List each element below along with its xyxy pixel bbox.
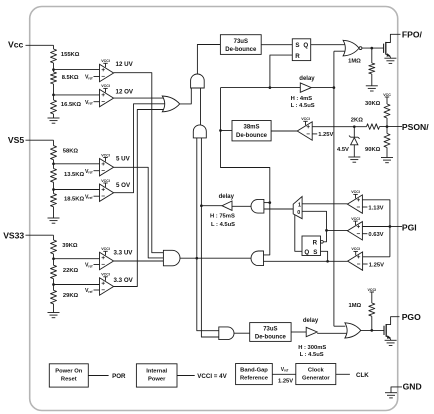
svg-text:Power On: Power On bbox=[55, 368, 83, 374]
svg-text:VCCI: VCCI bbox=[351, 217, 360, 221]
svg-text:73uS: 73uS bbox=[263, 326, 277, 332]
wire 5UV output riser to AND bbox=[114, 167, 164, 258]
resistor 18.5K bbox=[51, 194, 57, 207]
wire dome B input2 riser bbox=[200, 138, 202, 206]
reference 1.25V PSON bbox=[312, 133, 317, 135]
svg-text:VCC: VCC bbox=[383, 93, 391, 97]
svg-text:R: R bbox=[313, 240, 318, 247]
svg-text:VS5: VS5 bbox=[8, 135, 24, 145]
svg-text:39KΩ: 39KΩ bbox=[62, 243, 78, 249]
resistor 1M FPO bbox=[371, 48, 373, 63]
wire VCCI = 4V bbox=[177, 375, 195, 377]
svg-text:22KΩ: 22KΩ bbox=[63, 268, 79, 274]
wire tap 3.3UV bbox=[53, 254, 55, 265]
wire PSON comparator output to 38mS bbox=[271, 130, 297, 132]
and-gate vertical B bbox=[193, 125, 206, 138]
svg-text:S: S bbox=[295, 42, 299, 49]
latch RS PGI bbox=[302, 236, 321, 256]
svg-text:Vref: Vref bbox=[85, 169, 93, 175]
wire AND-left lower output bbox=[197, 257, 251, 259]
reference 1.25V PGI bbox=[363, 263, 368, 265]
svg-text:VCCI: VCCI bbox=[351, 247, 360, 251]
comparator 3.3OV bbox=[100, 278, 114, 295]
svg-text:VCCI: VCCI bbox=[101, 179, 110, 183]
wire mux input 0 riser to R bbox=[302, 211, 326, 242]
transistor PGO bbox=[383, 326, 385, 335]
svg-text:VCCI: VCCI bbox=[101, 247, 110, 251]
comparator 1.25V PGI bbox=[348, 252, 363, 270]
wire POR bbox=[88, 375, 108, 377]
svg-text:38mS: 38mS bbox=[243, 125, 259, 131]
svg-text:1.13V: 1.13V bbox=[368, 205, 383, 211]
wire riser to bottom AND input1 bbox=[197, 258, 219, 331]
wire VS33 to divider bbox=[53, 235, 55, 240]
wire NOR input2 riser / PGO OR riser bbox=[334, 50, 345, 52]
svg-text:VCCI: VCCI bbox=[368, 288, 377, 292]
svg-text:0: 0 bbox=[297, 210, 300, 216]
svg-text:4.5V: 4.5V bbox=[337, 147, 349, 153]
svg-text:0.63V: 0.63V bbox=[368, 232, 383, 238]
comparator 12UV bbox=[100, 64, 114, 81]
resistor 30K pullup bbox=[386, 97, 388, 101]
svg-text:VCCI = 4V: VCCI = 4V bbox=[197, 373, 227, 380]
svg-text:Vref: Vref bbox=[85, 263, 93, 269]
resistor 22K bbox=[51, 265, 57, 279]
comparator PSON 1.25V bbox=[297, 122, 312, 140]
and-gate vertical A bbox=[191, 74, 205, 88]
svg-text:De-bounce: De-bounce bbox=[236, 133, 268, 139]
svg-text:L : 4.5uS: L : 4.5uS bbox=[300, 352, 324, 358]
wire riser to bottom AND input2 bbox=[201, 206, 218, 337]
wire PGI to plus input 0.63V bbox=[362, 226, 390, 228]
svg-text:Vref: Vref bbox=[281, 367, 289, 373]
svg-text:Reset: Reset bbox=[61, 377, 77, 383]
nor-gate FPO bbox=[343, 40, 359, 56]
svg-text:Power: Power bbox=[148, 377, 166, 383]
ground divider 12V bbox=[53, 114, 55, 118]
svg-text:Band-Gap: Band-Gap bbox=[240, 368, 268, 374]
svg-text:3.3 OV: 3.3 OV bbox=[114, 277, 134, 284]
wire S input riser bbox=[321, 251, 328, 261]
svg-text:H : 4mS: H : 4mS bbox=[291, 96, 313, 102]
wire tap 5OV bbox=[53, 182, 55, 193]
svg-text:8.5KΩ: 8.5KΩ bbox=[62, 75, 79, 81]
svg-text:90KΩ: 90KΩ bbox=[365, 147, 381, 153]
resistor 90K pulldown bbox=[386, 127, 388, 134]
wire 12OV output to OR bbox=[114, 97, 165, 99]
ground GND pin bbox=[385, 392, 397, 394]
wire mux output to AND-left upper bbox=[264, 208, 293, 210]
svg-text:CLK: CLK bbox=[356, 372, 369, 379]
wire tap 12UV bbox=[53, 63, 55, 72]
svg-text:5 OV: 5 OV bbox=[116, 182, 131, 189]
svg-text:PGI: PGI bbox=[402, 222, 417, 232]
resistor 1M PGO bbox=[371, 292, 373, 296]
svg-text:Vref: Vref bbox=[85, 100, 93, 106]
wire 12UV output riser to AND bbox=[114, 73, 164, 253]
and-gate left upper bbox=[251, 199, 264, 213]
svg-text:16.5KΩ: 16.5KΩ bbox=[61, 102, 81, 108]
wire NOR output to FPO transistor bbox=[362, 47, 384, 49]
ground 90K bbox=[381, 157, 393, 159]
resistor 16.5K bbox=[51, 100, 57, 114]
de-bounce 73uS bottom box bbox=[250, 323, 291, 342]
svg-text:Vcc: Vcc bbox=[8, 40, 24, 50]
resistor 155K bbox=[51, 49, 57, 63]
wire VS5 to divider bbox=[53, 140, 55, 145]
resistor 58K bbox=[51, 146, 57, 160]
wire 5OV output riser to OR bbox=[114, 104, 165, 193]
svg-text:Vref: Vref bbox=[85, 194, 93, 200]
svg-text:GND: GND bbox=[403, 381, 422, 391]
svg-text:VCCI: VCCI bbox=[351, 190, 360, 194]
resistor 13.5K bbox=[51, 169, 57, 183]
svg-text:Clock: Clock bbox=[308, 368, 325, 374]
wire AND B output to AND A bbox=[200, 88, 202, 125]
wire comparator 1.13V plus input bbox=[362, 200, 390, 227]
svg-text:73uS: 73uS bbox=[234, 39, 248, 45]
svg-text:Q: Q bbox=[303, 42, 308, 49]
svg-text:3.3 UV: 3.3 UV bbox=[114, 250, 134, 257]
svg-text:12 UV: 12 UV bbox=[116, 61, 134, 68]
block Power On Reset bbox=[49, 364, 88, 387]
resistor 29K bbox=[51, 290, 57, 304]
svg-text:Internal: Internal bbox=[146, 368, 167, 374]
and-gate left lower bbox=[251, 251, 264, 266]
comparator 12OV bbox=[100, 89, 114, 106]
wire OR output riser to vertical AND A bbox=[180, 88, 191, 104]
svg-text:FPO/: FPO/ bbox=[402, 30, 423, 40]
reference 0.63V bbox=[362, 233, 367, 235]
wire 75mS delay output to risers bbox=[201, 205, 222, 207]
wire bottom AND to 73uS de-bounce bbox=[234, 332, 250, 334]
svg-text:Generator: Generator bbox=[302, 376, 330, 382]
svg-text:VCCI: VCCI bbox=[101, 273, 110, 277]
svg-text:13.5KΩ: 13.5KΩ bbox=[64, 172, 84, 178]
ground 1M FPO bbox=[371, 74, 373, 86]
wire comparator 0.63V output bbox=[327, 229, 348, 231]
wire 73uS to S input bbox=[261, 44, 292, 46]
svg-text:delay: delay bbox=[303, 318, 319, 324]
svg-text:VS33: VS33 bbox=[3, 231, 24, 241]
svg-text:1MΩ: 1MΩ bbox=[349, 303, 362, 309]
wire delay output to NOR input riser bbox=[311, 87, 334, 89]
or-gate PGO bbox=[345, 323, 361, 338]
ground divider 5V bbox=[53, 207, 55, 218]
resistor 2K series bbox=[367, 124, 380, 130]
wire mux input 1 from comparator 1.13V bbox=[302, 203, 347, 205]
and-gate bottom PGO bbox=[219, 327, 234, 340]
svg-text:Vref: Vref bbox=[85, 75, 93, 81]
wire AND A output to 73uS de-bounce bbox=[197, 45, 220, 75]
or-gate OV fault bbox=[162, 96, 179, 112]
block Band-Gap Reference bbox=[236, 364, 273, 385]
wire Q output to NOR bbox=[311, 44, 345, 46]
svg-text:18.5KΩ: 18.5KΩ bbox=[64, 196, 84, 202]
svg-text:R: R bbox=[295, 53, 300, 60]
wire branch to AND-left upper bbox=[264, 202, 270, 204]
svg-text:30KΩ: 30KΩ bbox=[365, 101, 381, 107]
wire Q to mux select bbox=[295, 215, 302, 252]
svg-text:H : 75mS: H : 75mS bbox=[210, 214, 235, 220]
wire 3.3OV output riser to OR bbox=[114, 110, 165, 287]
wire R input from PSON debounce bbox=[270, 55, 292, 88]
wire PSON node to comparator bbox=[312, 126, 366, 128]
wire tap 5UV bbox=[53, 160, 55, 169]
wire tap 3.3OV bbox=[53, 279, 55, 291]
pin PGI bbox=[389, 225, 392, 228]
resistor 39K bbox=[51, 240, 57, 254]
svg-text:58KΩ: 58KΩ bbox=[63, 148, 79, 154]
svg-text:1MΩ: 1MΩ bbox=[348, 58, 361, 64]
svg-text:1.25V: 1.25V bbox=[369, 263, 384, 269]
latch SR top bbox=[292, 39, 310, 61]
svg-text:VCCI: VCCI bbox=[101, 59, 110, 63]
ground zener bbox=[348, 156, 360, 158]
svg-text:155KΩ: 155KΩ bbox=[61, 52, 80, 58]
svg-text:H : 300mS: H : 300mS bbox=[298, 345, 326, 351]
ground divider 3.3V bbox=[53, 304, 55, 313]
svg-text:5 UV: 5 UV bbox=[116, 156, 131, 163]
wire AND-left upper output to 75mS delay bbox=[232, 205, 251, 207]
svg-text:Vref: Vref bbox=[85, 288, 93, 294]
comparator 3.3UV bbox=[100, 252, 114, 269]
transistor FPO bbox=[383, 44, 385, 53]
svg-text:VCCI: VCCI bbox=[101, 153, 110, 157]
de-bounce 73uS top box bbox=[220, 35, 261, 55]
mux 2to1 bbox=[293, 197, 302, 219]
svg-text:delay: delay bbox=[219, 194, 235, 200]
svg-text:1.25V: 1.25V bbox=[278, 379, 293, 385]
svg-text:Reference: Reference bbox=[240, 376, 269, 382]
wire OR output to PGO transistor bbox=[360, 329, 384, 331]
svg-text:POR: POR bbox=[112, 373, 126, 380]
wire 38mS output snake bbox=[221, 130, 233, 132]
comparator 1.13V bbox=[347, 195, 362, 213]
svg-text:delay: delay bbox=[299, 76, 315, 82]
wire U-AND output junction bbox=[195, 257, 198, 260]
wire delay 300mS to OR bbox=[317, 332, 346, 334]
svg-text:1.25V: 1.25V bbox=[318, 132, 333, 138]
wire comparator 1.25V plus input bbox=[363, 256, 390, 258]
de-bounce 38mS box bbox=[232, 121, 271, 141]
svg-text:S: S bbox=[313, 249, 317, 256]
svg-text:L : 4.5uS: L : 4.5uS bbox=[211, 222, 235, 228]
reference 1.13V bbox=[362, 206, 367, 208]
svg-text:PGO: PGO bbox=[402, 312, 421, 322]
comparator 0.63V bbox=[347, 222, 362, 240]
ground FPO source bbox=[384, 57, 396, 59]
svg-text:1: 1 bbox=[298, 202, 301, 208]
wire 38mS output down branch bbox=[221, 131, 270, 255]
wire dome B input1 riser bbox=[196, 138, 198, 258]
comparator 5OV bbox=[100, 184, 114, 201]
svg-text:De-bounce: De-bounce bbox=[255, 335, 287, 341]
resistor 8.5K bbox=[51, 72, 57, 84]
zener diode 4.5V bbox=[353, 127, 355, 138]
svg-text:De-bounce: De-bounce bbox=[225, 47, 257, 53]
comparator 5UV bbox=[100, 159, 114, 176]
svg-text:12 OV: 12 OV bbox=[116, 88, 134, 95]
and-gate UV good U-AND bbox=[163, 250, 180, 265]
wire FPO riser to PGO OR bbox=[334, 325, 346, 327]
block Internal Power bbox=[136, 364, 177, 387]
svg-text:VCCI: VCCI bbox=[101, 84, 110, 88]
svg-text:L : 4.5uS: L : 4.5uS bbox=[291, 103, 315, 109]
ground PGO source bbox=[385, 339, 397, 341]
svg-text:2KΩ: 2KΩ bbox=[351, 117, 363, 123]
wire long power-good line bbox=[264, 260, 348, 262]
block Clock Generator bbox=[296, 364, 336, 385]
svg-text:PSON/: PSON/ bbox=[402, 122, 429, 132]
svg-text:29KΩ: 29KΩ bbox=[63, 293, 79, 299]
svg-text:VCCI: VCCI bbox=[301, 117, 310, 121]
wire 3.3UV output to AND bbox=[114, 260, 164, 262]
wire tap 12OV bbox=[53, 84, 55, 100]
wire CLK bbox=[336, 373, 350, 375]
svg-text:Q: Q bbox=[304, 249, 309, 256]
wire Vcc to divider bbox=[53, 45, 55, 49]
